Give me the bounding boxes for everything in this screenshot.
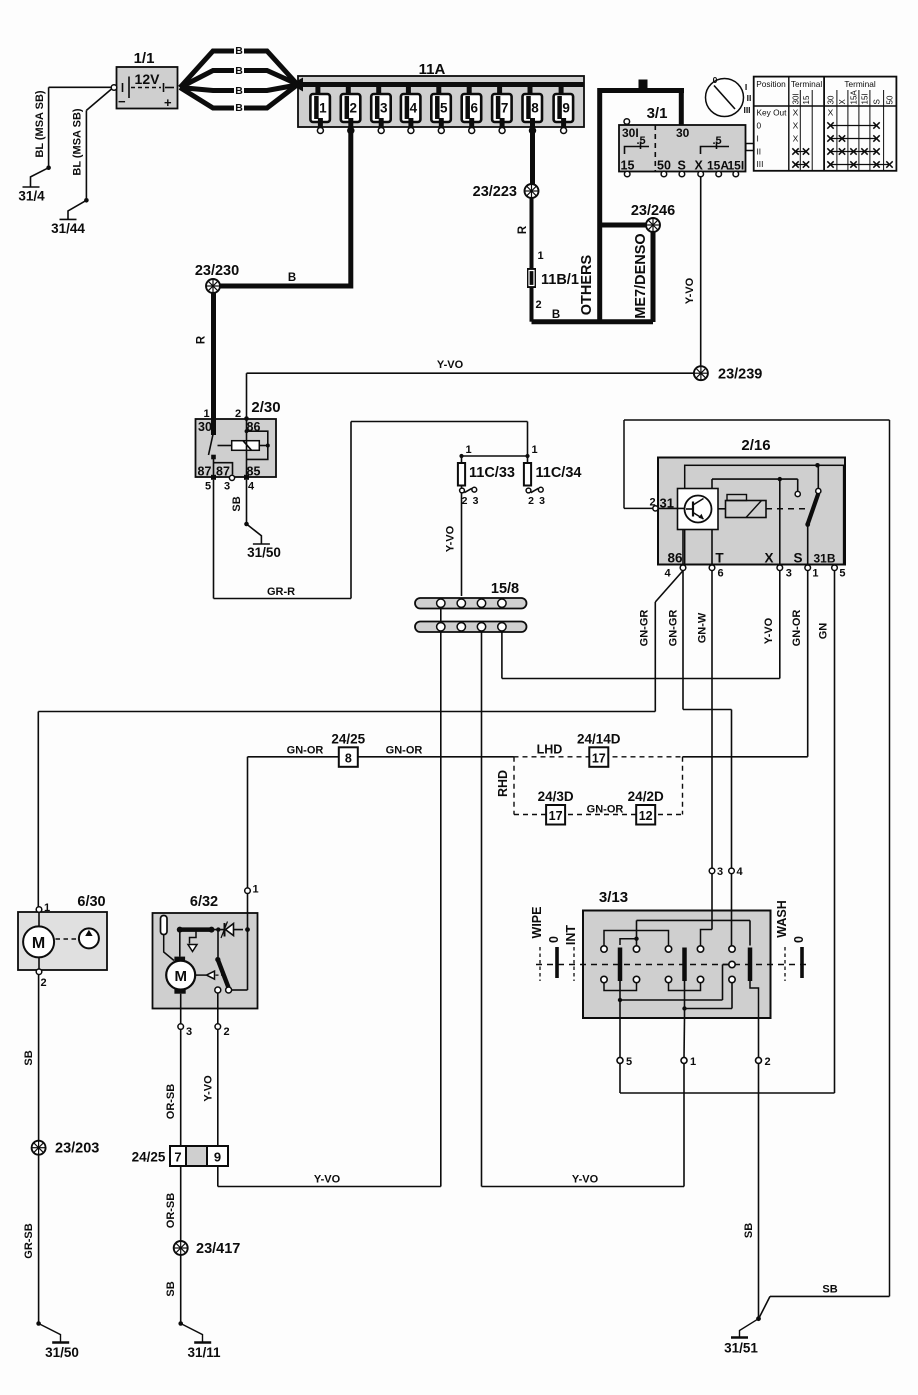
svg-text:15/8: 15/8 (491, 581, 519, 597)
svg-text:2/16: 2/16 (741, 437, 770, 454)
svg-text:B: B (288, 272, 296, 284)
svg-text:15I: 15I (728, 159, 745, 173)
svg-text:II: II (757, 147, 762, 157)
svg-text:ME7/DENSO: ME7/DENSO (633, 233, 649, 318)
svg-text:+: + (164, 95, 172, 110)
svg-text:11B/1: 11B/1 (541, 272, 579, 288)
svg-text:8: 8 (531, 101, 539, 116)
svg-text:6/30: 6/30 (77, 894, 105, 910)
svg-text:M: M (32, 935, 45, 952)
svg-text:3: 3 (473, 495, 479, 507)
svg-text:3/1: 3/1 (647, 105, 668, 122)
svg-text:31/50: 31/50 (247, 545, 281, 560)
svg-text:5: 5 (205, 481, 211, 493)
svg-text:1: 1 (44, 902, 50, 914)
svg-text:GN-OR: GN-OR (287, 745, 324, 757)
svg-text:3: 3 (186, 1026, 192, 1038)
svg-text:23/246: 23/246 (631, 203, 675, 219)
svg-text:23/223: 23/223 (473, 184, 517, 200)
svg-text:1: 1 (319, 101, 327, 116)
svg-text:87: 87 (198, 465, 212, 479)
svg-text:X: X (695, 159, 704, 173)
svg-text:WIPE: WIPE (530, 907, 544, 939)
svg-text:7: 7 (501, 101, 509, 116)
svg-text:24/14D: 24/14D (577, 732, 621, 747)
svg-text:III: III (743, 105, 750, 115)
svg-text:2: 2 (528, 495, 534, 507)
svg-text:X: X (793, 134, 799, 144)
svg-text:7: 7 (174, 1150, 181, 1165)
svg-text:31/50: 31/50 (45, 1345, 79, 1360)
svg-text:X: X (793, 108, 799, 118)
svg-text:GR-R: GR-R (267, 586, 295, 598)
svg-text:SB: SB (822, 1284, 837, 1296)
svg-text:WASH: WASH (775, 900, 789, 938)
svg-text:B: B (235, 85, 243, 97)
svg-text:Y-VO: Y-VO (763, 617, 775, 644)
svg-text:GN-GR: GN-GR (668, 610, 680, 647)
svg-text:11C/34: 11C/34 (536, 465, 582, 481)
svg-text:15I: 15I (861, 93, 870, 104)
svg-text:M: M (174, 968, 187, 985)
svg-text:6: 6 (470, 101, 478, 116)
svg-text:Y-VO: Y-VO (437, 359, 464, 371)
svg-text:30: 30 (827, 95, 836, 104)
svg-text:3: 3 (717, 866, 723, 878)
svg-text:3: 3 (224, 481, 230, 493)
svg-text:GN-W: GN-W (697, 612, 709, 643)
svg-text:1/1: 1/1 (134, 50, 155, 67)
svg-text:II: II (747, 93, 752, 103)
svg-text:17: 17 (592, 752, 606, 766)
svg-text:0: 0 (713, 75, 718, 85)
svg-text:GN-OR: GN-OR (587, 804, 624, 816)
svg-text:17: 17 (549, 809, 563, 823)
svg-text:9: 9 (562, 101, 570, 116)
svg-text:OTHERS: OTHERS (579, 254, 595, 315)
svg-text:23/417: 23/417 (196, 1241, 240, 1257)
svg-text:SB: SB (165, 1281, 177, 1296)
svg-text:31/51: 31/51 (724, 1341, 758, 1356)
svg-text:BL (MSA SB): BL (MSA SB) (72, 108, 84, 176)
svg-text:Key Out: Key Out (757, 108, 788, 118)
svg-text:Y-VO: Y-VO (572, 1174, 599, 1186)
svg-text:24/3D: 24/3D (538, 789, 574, 804)
svg-text:87: 87 (216, 465, 230, 479)
svg-text:B: B (552, 309, 560, 321)
svg-text:2: 2 (536, 299, 542, 311)
svg-text:23/203: 23/203 (55, 1141, 99, 1157)
svg-text:50: 50 (657, 159, 671, 173)
svg-text:4: 4 (248, 481, 255, 493)
svg-text:S: S (793, 551, 802, 566)
svg-text:1: 1 (690, 1056, 696, 1068)
svg-text:2: 2 (41, 977, 47, 989)
svg-text:GR-SB: GR-SB (23, 1223, 35, 1259)
svg-text:6/32: 6/32 (190, 894, 218, 910)
svg-text:B: B (235, 45, 243, 57)
svg-text:X: X (793, 121, 799, 131)
svg-text:31/4: 31/4 (18, 189, 45, 204)
svg-text:X: X (764, 551, 773, 566)
svg-text:15A: 15A (850, 90, 859, 105)
svg-text:23/230: 23/230 (195, 263, 239, 279)
svg-text:X: X (828, 108, 834, 118)
svg-text:11C/33: 11C/33 (469, 465, 515, 481)
svg-text:−: − (118, 94, 126, 109)
svg-text:15: 15 (802, 95, 811, 104)
svg-text:2: 2 (462, 495, 468, 507)
svg-text:24/25: 24/25 (331, 732, 365, 747)
svg-text:86: 86 (667, 551, 683, 566)
svg-text:2: 2 (350, 101, 358, 116)
svg-text:4: 4 (737, 866, 744, 878)
svg-text:T: T (715, 551, 724, 566)
svg-text:LHD: LHD (537, 743, 563, 757)
svg-text:OR-SB: OR-SB (165, 1084, 177, 1120)
svg-text:12V: 12V (135, 71, 161, 87)
svg-text:GN-GR: GN-GR (639, 610, 651, 647)
svg-text:31: 31 (660, 496, 674, 511)
svg-text:INT: INT (564, 925, 578, 946)
svg-text:Terminal: Terminal (791, 79, 823, 89)
svg-text:30: 30 (198, 420, 212, 434)
svg-text:OR-SB: OR-SB (165, 1193, 177, 1229)
svg-text:3: 3 (539, 495, 545, 507)
svg-text:R: R (196, 335, 208, 344)
svg-text:5: 5 (626, 1056, 632, 1068)
svg-text:GN-OR: GN-OR (386, 745, 423, 757)
svg-text:Position: Position (756, 79, 786, 89)
svg-text:4: 4 (410, 101, 418, 116)
svg-text:24/2D: 24/2D (628, 789, 664, 804)
svg-text:I: I (745, 82, 747, 92)
svg-text:S: S (873, 99, 882, 104)
svg-text:15: 15 (621, 159, 635, 173)
svg-text:0: 0 (757, 121, 762, 131)
svg-text:Y-VO: Y-VO (314, 1174, 341, 1186)
svg-text:50: 50 (886, 95, 895, 104)
svg-text:1: 1 (466, 444, 472, 456)
svg-text:B: B (235, 102, 243, 114)
svg-text:RHD: RHD (496, 770, 510, 797)
svg-text:31B: 31B (813, 552, 835, 566)
svg-text:2/30: 2/30 (251, 399, 280, 416)
svg-text:5: 5 (440, 101, 448, 116)
svg-text:31/11: 31/11 (187, 1345, 221, 1360)
svg-text:GN: GN (818, 623, 830, 640)
svg-text:3/13: 3/13 (599, 889, 628, 906)
svg-text:Y-VO: Y-VO (202, 1075, 214, 1102)
svg-text:31/44: 31/44 (51, 221, 85, 236)
svg-text:4: 4 (664, 568, 671, 580)
svg-text:0: 0 (547, 936, 561, 943)
svg-text:3: 3 (786, 568, 792, 580)
svg-text:30: 30 (676, 126, 690, 140)
svg-text:15A: 15A (707, 159, 729, 173)
svg-text:BL (MSA SB): BL (MSA SB) (34, 90, 46, 158)
svg-text:3: 3 (380, 101, 388, 116)
svg-text:1: 1 (532, 444, 538, 456)
svg-text:B: B (235, 65, 243, 77)
svg-text:SB: SB (231, 496, 243, 511)
svg-text:23/239: 23/239 (718, 367, 762, 383)
svg-text:6: 6 (717, 568, 723, 580)
svg-text:85: 85 (247, 465, 261, 479)
svg-text:8: 8 (345, 752, 352, 766)
svg-text:1: 1 (812, 568, 818, 580)
svg-text:2: 2 (765, 1056, 771, 1068)
svg-text:GN-OR: GN-OR (791, 610, 803, 647)
svg-text:1: 1 (253, 884, 259, 896)
svg-text:Y-VO: Y-VO (445, 525, 457, 552)
svg-text:I: I (757, 134, 759, 144)
svg-text:0: 0 (792, 936, 806, 943)
svg-text:SB: SB (743, 1223, 755, 1238)
svg-text:1: 1 (538, 250, 544, 262)
svg-text:X: X (838, 99, 847, 105)
svg-text:30I: 30I (792, 93, 801, 104)
svg-text:Y-VO: Y-VO (684, 277, 696, 304)
svg-text:5: 5 (839, 568, 845, 580)
svg-text:Terminal: Terminal (844, 79, 876, 89)
svg-text:III: III (757, 159, 764, 169)
svg-text:S: S (678, 159, 686, 173)
svg-text:R: R (517, 225, 529, 234)
svg-text:SB: SB (23, 1050, 35, 1065)
svg-text:12: 12 (639, 809, 653, 823)
svg-text:24/25: 24/25 (132, 1150, 166, 1165)
svg-text:2: 2 (224, 1026, 230, 1038)
svg-text:9: 9 (214, 1150, 221, 1165)
